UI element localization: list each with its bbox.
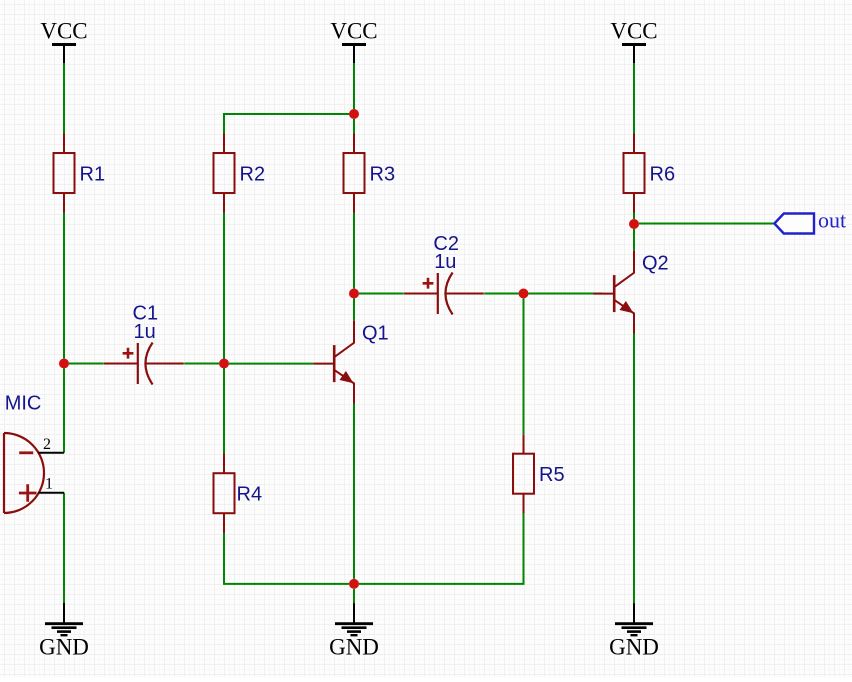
microphone MIC (4, 393, 64, 514)
wire C2 right lead to node F (484, 293, 518, 295)
svg-text:2: 2 (43, 436, 51, 453)
net port out (774, 208, 846, 234)
power VCC (middle) (330, 19, 377, 64)
transistor Q2 (593, 251, 668, 334)
resistor R2 (214, 134, 266, 213)
junction node D (349, 289, 359, 299)
resistor R6 (624, 134, 676, 213)
MIC plus marking (19, 484, 37, 502)
wire R6 bottom to node G (633, 212, 635, 219)
wire node D to Q1 collector (353, 299, 355, 321)
wire MIC pin 1 to GND1 (63, 493, 65, 603)
wire rail node E to GND2 (353, 589, 355, 603)
svg-text:GND: GND (609, 635, 659, 660)
ground GND (right) (609, 603, 659, 660)
junction node B (349, 109, 359, 119)
power VCC (left) (40, 19, 87, 64)
wire rail node E to R5 bottom (359, 512, 524, 584)
junction node E (349, 579, 359, 589)
MIC minus marking (19, 451, 33, 454)
wire node G to Q2 collector (633, 229, 635, 251)
ground GND (left) (39, 603, 89, 660)
wire node G to out port (639, 223, 774, 225)
svg-text:R2: R2 (240, 164, 266, 186)
wire node B to R2 top (224, 114, 354, 134)
transistor Q1 (313, 321, 388, 404)
resistor R1 (54, 134, 106, 213)
wire node C to Q1 base (229, 363, 313, 365)
wire R2 bottom through node C to R4 top (223, 212, 225, 455)
MIC pin 2 stub (39, 452, 65, 454)
svg-text:Q1: Q1 (362, 323, 389, 345)
resistor R4 (214, 454, 263, 533)
junction node A (59, 359, 69, 369)
MIC pin 1 stub (39, 492, 65, 494)
junction node G (629, 219, 639, 229)
capacitor C1 (1u) (104, 303, 184, 385)
capacitor C2 (1u) (404, 233, 484, 315)
wire node F to Q2 base (529, 293, 604, 295)
svg-text:VCC: VCC (610, 19, 657, 44)
wire VCC3 to R6 top (633, 63, 635, 134)
wire node F to R5 top (523, 299, 525, 435)
wire node B to R3 top (353, 119, 355, 134)
svg-text:R1: R1 (80, 164, 106, 186)
svg-text:R6: R6 (650, 164, 676, 186)
svg-text:VCC: VCC (330, 19, 377, 44)
wire node A to MIC pin 2 (63, 369, 65, 453)
wire C1 right lead to node C (184, 363, 219, 365)
resistor R3 (344, 134, 396, 213)
svg-text:out: out (818, 208, 846, 233)
svg-text:MIC: MIC (5, 393, 42, 415)
svg-text:VCC: VCC (40, 19, 87, 44)
svg-text:1: 1 (45, 476, 53, 493)
wire R3 bottom to node D (353, 212, 355, 289)
wire VCC2 to node B (353, 63, 355, 109)
svg-text:R4: R4 (237, 484, 263, 506)
svg-text:1u: 1u (434, 251, 456, 273)
svg-text:R5: R5 (539, 464, 565, 486)
wire node D to C2 left lead (359, 293, 404, 295)
svg-text:GND: GND (329, 635, 379, 660)
junction node C (219, 359, 229, 369)
ground GND (middle) (329, 603, 379, 660)
wire Q2 emitter to GND3 (633, 334, 635, 604)
svg-text:Q2: Q2 (642, 253, 669, 275)
power VCC (right) (610, 19, 657, 64)
svg-text:GND: GND (39, 635, 89, 660)
wire R1 bottom to node A (63, 212, 65, 359)
svg-text:R3: R3 (370, 164, 396, 186)
wire node A to C1 left lead (69, 363, 104, 365)
junction node F (519, 289, 529, 299)
resistor R5 (513, 434, 565, 513)
svg-text:1u: 1u (134, 321, 156, 343)
wire Q1 emitter to rail node E (353, 404, 355, 579)
wire R4 bottom to rail (224, 532, 349, 584)
wire VCC1 to R1 top (63, 63, 65, 134)
